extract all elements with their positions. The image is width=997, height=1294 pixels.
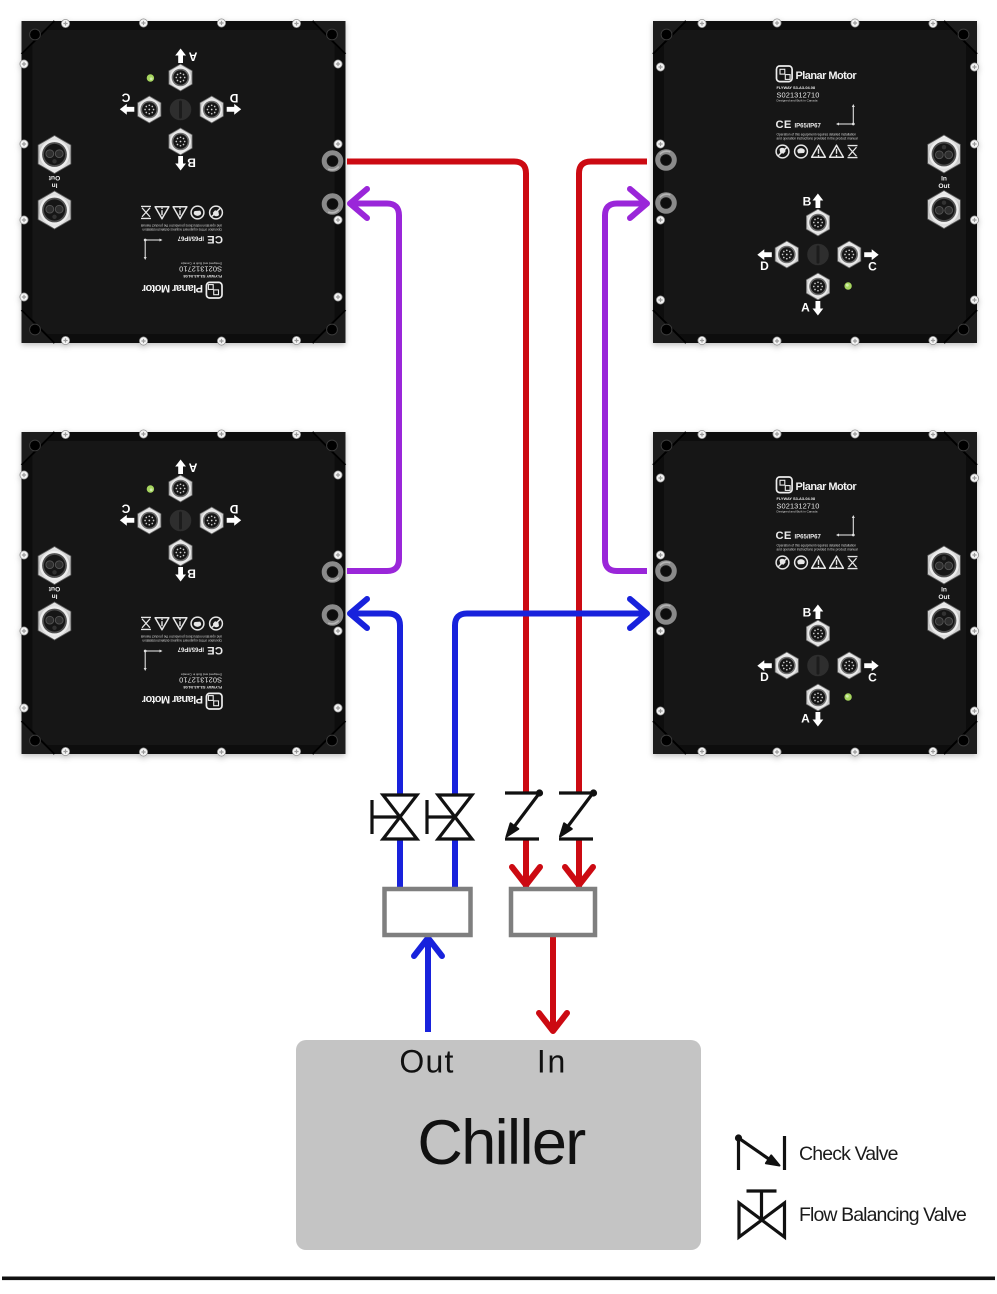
- svg-text:Check Valve: Check Valve: [799, 1143, 898, 1165]
- svg-text:Out: Out: [399, 1044, 454, 1080]
- svg-text:Flow Balancing Valve: Flow Balancing Valve: [799, 1204, 966, 1226]
- svg-text:Chiller: Chiller: [417, 1108, 585, 1178]
- svg-text:In: In: [537, 1044, 567, 1080]
